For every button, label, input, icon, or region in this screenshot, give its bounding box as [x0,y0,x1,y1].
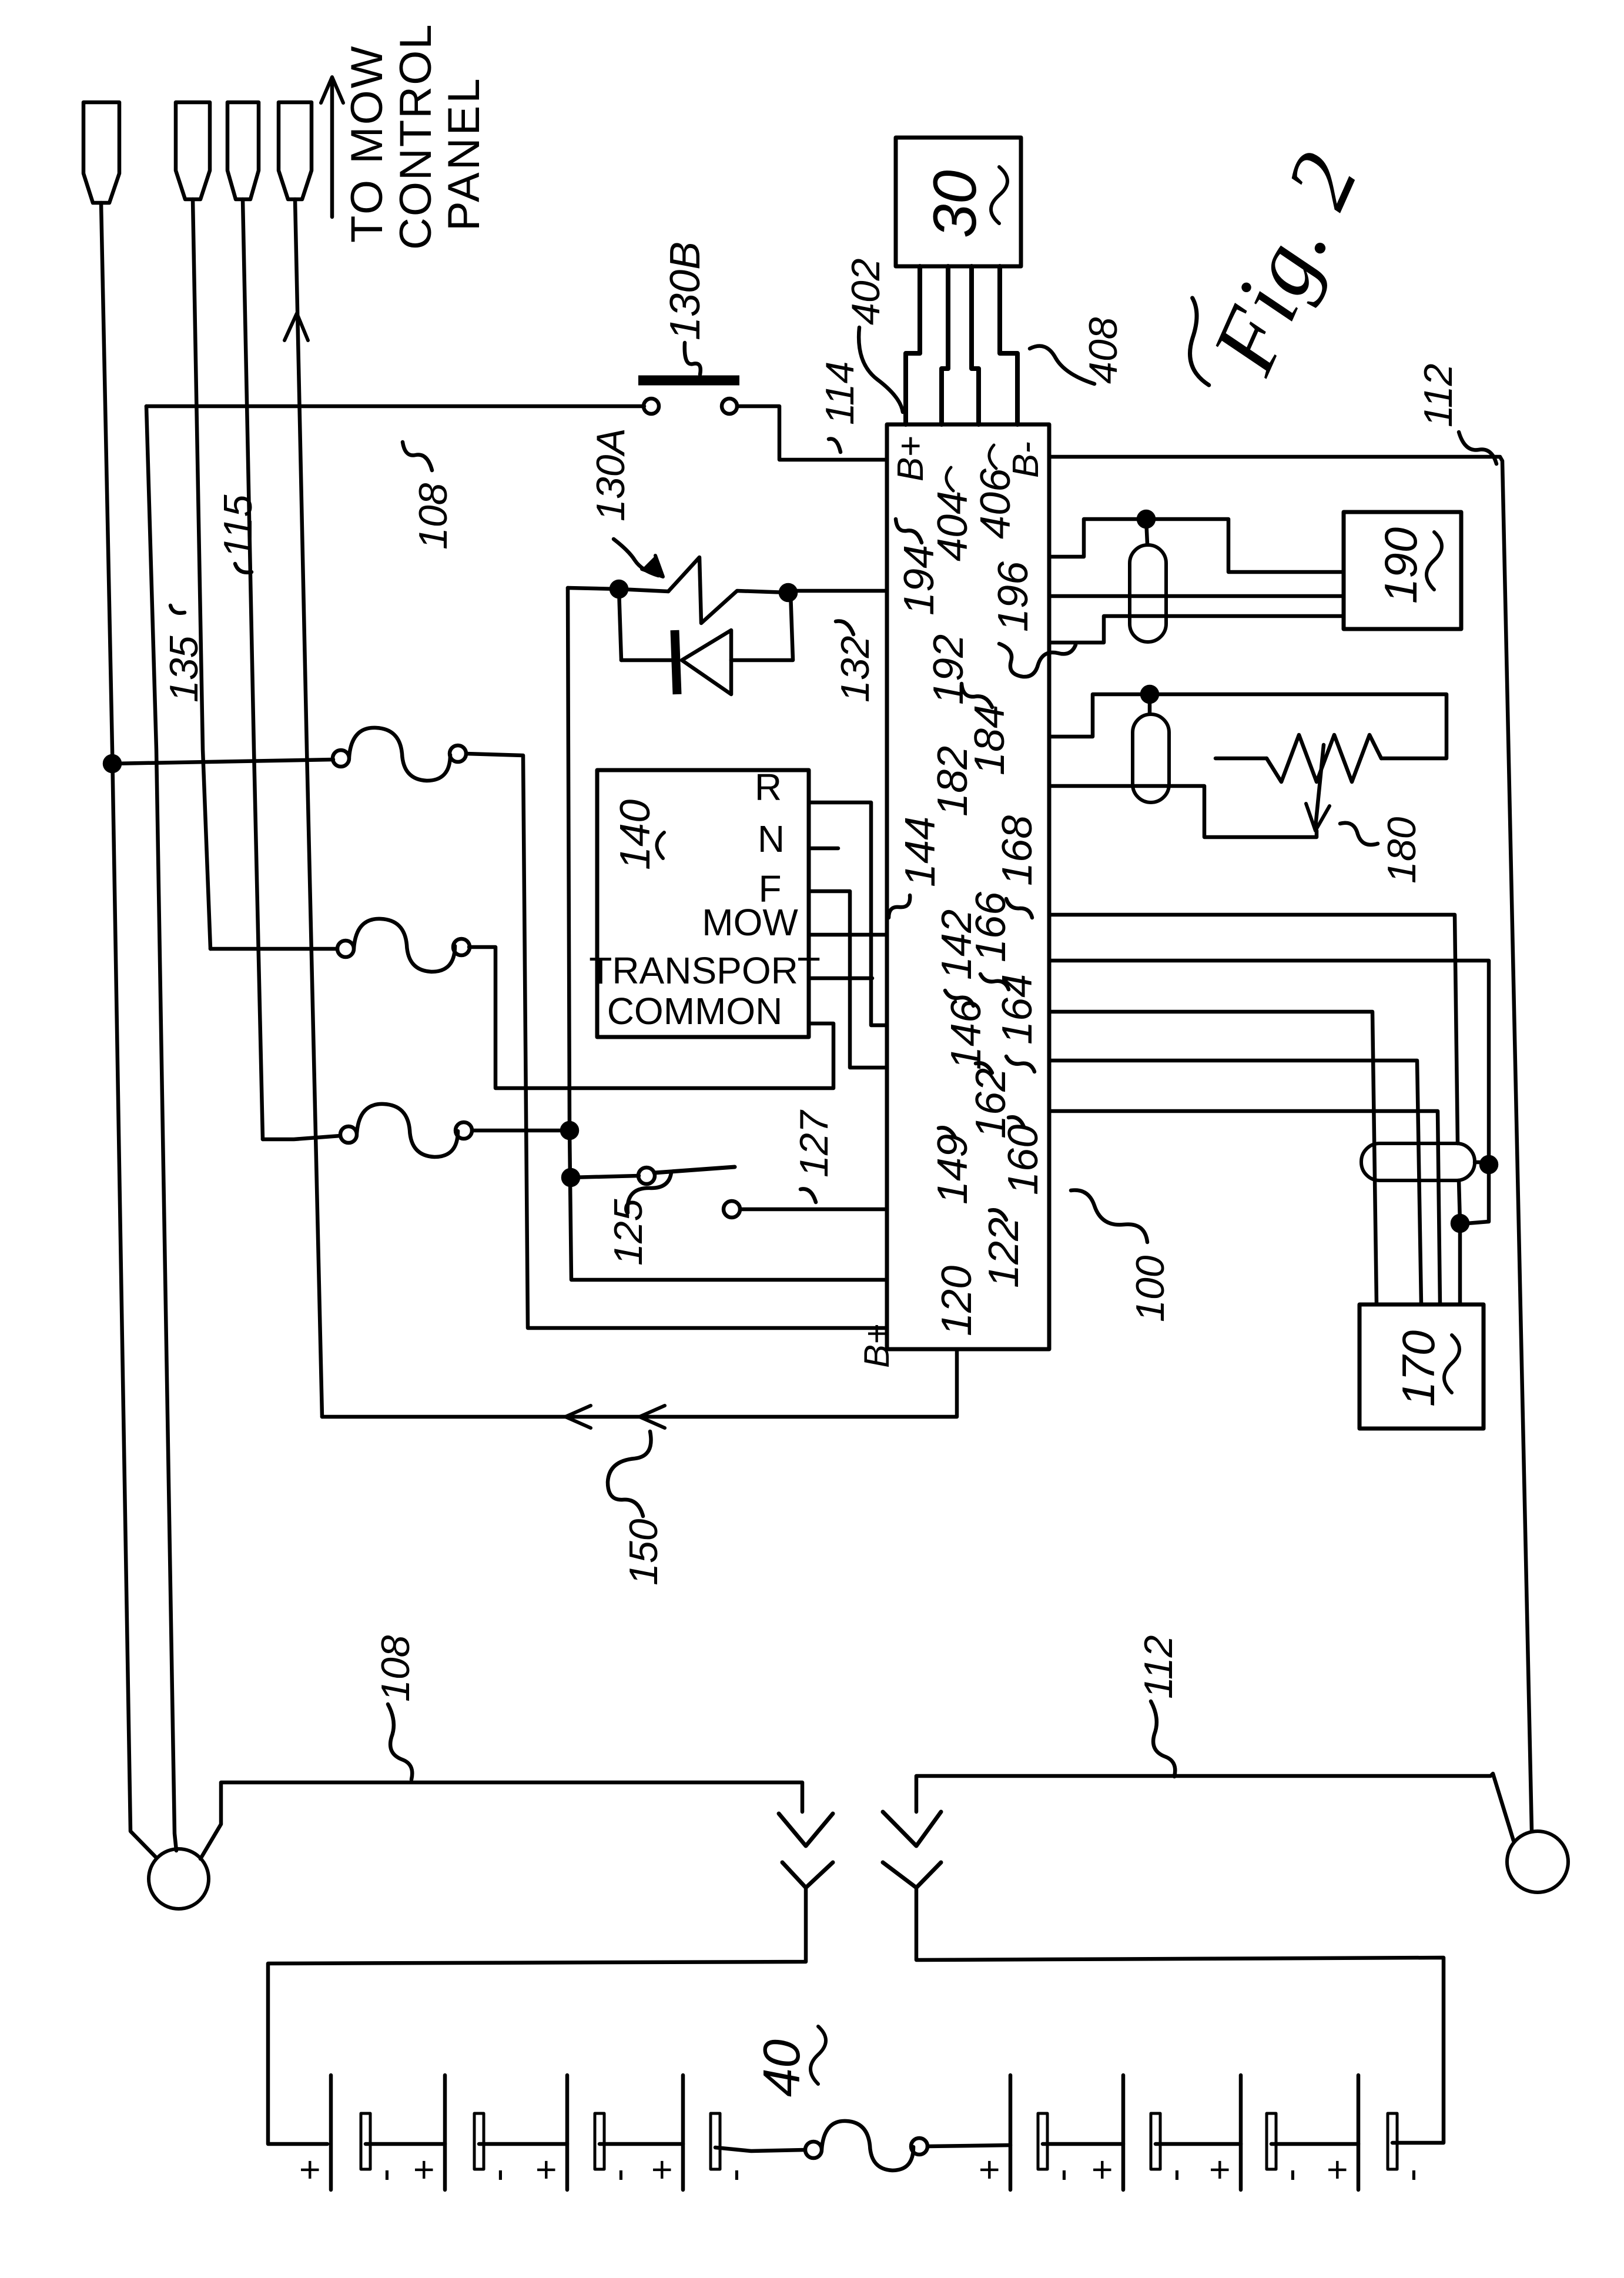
wire coupler to battery top [268,1888,806,2144]
diode branch wire upper [621,658,676,663]
svg-text:112: 112 [1416,364,1461,427]
diode branch stub top [619,589,621,660]
fuse F3 contact a [340,1126,357,1143]
direction arrow beside TO MOW CONTROL PANEL text [321,77,343,217]
coupler female contact right harness [883,1862,941,1888]
wire 150: B+ feed from pin P4 corner to bar bottom left [322,1351,957,1417]
svg-text:-: - [1389,2169,1432,2182]
svg-text:-: - [596,2169,639,2182]
label 125 with leader [606,1173,671,1266]
terminal label 122 with leader [980,1210,1027,1288]
terminal label 406 with tilde [972,445,1019,539]
fuse F2 contact b [453,939,470,955]
label 30 with tilde inside motor box [921,167,1007,238]
battery cell 5-6 link [1043,2142,1123,2146]
svg-text:TO MOW: TO MOW [342,45,392,243]
svg-text:-: - [1152,2169,1196,2182]
battery fuse contact a [805,2142,822,2158]
battery cell 6-7 link [1156,2142,1241,2146]
fuse F2 feed from pin P2 wire [210,947,337,951]
svg-text:+: + [526,2159,567,2180]
terminal label 142 with leader [933,909,980,1006]
battery cell 8 plates [1358,2075,1397,2190]
svg-text:160: 160 [1000,1125,1047,1195]
svg-text:+: + [1200,2159,1240,2180]
pushbutton switch 130B contact b [722,399,737,414]
terminal label 149 with leader [929,1128,976,1205]
svg-text:B+: B+ [890,436,931,481]
terminal label 184 with leader [962,684,1013,775]
battery cell 3-4 link [600,2142,683,2146]
wire 164 from bar to sensor box 170 [1049,915,1458,1143]
harness ring terminal right (112 side) [1507,1831,1568,1892]
stub dot to sensor pill S2 [1148,694,1152,713]
sensor box 170 [1360,1304,1484,1429]
svg-text:PANEL: PANEL [439,76,489,231]
fuse F1 element s-curve [349,728,450,781]
wire switch 127 contact to bar terminal 122 [740,1207,885,1212]
fuse F1 contact b [450,745,466,762]
junction dot at flasher top [611,581,627,597]
svg-text:-: - [712,2169,755,2182]
motor controller terminal bar 100 [887,424,1049,1349]
svg-text:R: R [755,766,782,808]
terminal label 164 with leader [994,974,1041,1072]
battery cell 1-2 link [366,2142,445,2146]
junction dot group 180 [1142,687,1157,702]
battery cell 2-3 link [479,2142,567,2146]
wire 196 from bar through pill to box 190 [1049,594,1344,598]
battery cell 5 plates [1010,2075,1047,2190]
svg-text:406: 406 [972,468,1019,539]
terminal label 162 with leader [967,1063,1014,1139]
svg-text:B+: B+ [857,1324,896,1368]
svg-text:164: 164 [994,974,1041,1045]
svg-text:150: 150 [621,1518,666,1585]
connector pin P1 (to mow control panel) [83,102,119,203]
label 140 with tilde inside box [612,800,664,870]
label 114 with tilde leader [818,362,862,452]
motor lead 406a [972,266,979,424]
junction dot group 190 [1139,511,1154,527]
switch 127 contact b [724,1201,740,1217]
svg-text:132: 132 [833,636,878,703]
label 100 with leader [1071,1190,1173,1322]
svg-text:168: 168 [994,815,1041,886]
battery cell 6 polarity labels [1082,2159,1196,2182]
connector pin P2 [176,102,210,199]
wire coupler to battery bottom [916,1888,1444,2143]
battery cell 8 polarity labels [1317,2159,1432,2182]
stub dot to sensor pill S1 [1146,519,1147,544]
battery cell 5 polarity labels [969,2159,1083,2182]
svg-text:+: + [404,2159,444,2180]
wire F pin to bar [809,891,885,1068]
wire from pin P4 to node at 150 wire [295,199,322,1417]
svg-text:+: + [642,2159,682,2180]
wire COMMON pin to fuse F2 output [469,947,833,1088]
wire 162 from bar joining via pill stub [1049,961,1489,1223]
rheostat 180 zigzag element [1267,735,1381,782]
svg-text:402: 402 [843,259,888,325]
svg-text:122: 122 [980,1217,1027,1288]
label 130B with leader [662,242,709,374]
wire rail junction to switch 125 contact [571,1176,639,1178]
battery cell 2 plates [445,2075,484,2190]
coupler male arrow right harness [883,1812,941,1846]
svg-text:130B: 130B [662,242,709,340]
fuse F1 feed wire [112,760,333,764]
label 408 with curved leader [1030,317,1126,384]
svg-text:40: 40 [752,2039,811,2097]
terminal label 168 with leader [994,815,1041,918]
junction dot at flasher bottom [781,585,796,600]
battery cell 4 polarity labels [642,2159,755,2182]
terminal label 196 with leader [990,561,1076,677]
wire 108 harness run from circle to coupler [200,1782,802,1859]
svg-text:108: 108 [373,1635,418,1702]
svg-text:166: 166 [967,891,1014,962]
label 170 with tilde [1392,1330,1459,1407]
svg-text:146: 146 [943,999,990,1070]
label 180 with leader [1340,817,1424,884]
battery fuse contact b [911,2138,927,2155]
svg-text:B-: B- [1006,441,1046,478]
junction dot on wire into 170 [1452,1216,1468,1231]
sensor pill S3 around harness wires [1361,1143,1475,1180]
lamp box 190 [1344,512,1461,629]
switch 125 blade arm [654,1167,735,1173]
svg-text:404: 404 [929,491,976,561]
fuse F1 feed junction dot on P1 wire [105,756,120,771]
connector pin P3 [227,102,259,199]
arrowhead 2 on wire 150 pointing up [639,1406,665,1428]
label 190 with tilde [1375,527,1442,604]
diode cathode bar [675,630,677,694]
harness ring terminal left (108 side) [149,1849,209,1909]
diode triangle [682,630,731,694]
wire 194 from bar to sensor group 190 [1049,519,1344,572]
fuse F3 element s-curve [357,1104,458,1157]
svg-text:408: 408 [1081,317,1126,384]
svg-text:108: 108 [411,483,456,550]
label 112 (harness) with tilde leader [1136,1635,1181,1777]
svg-text:190: 190 [1375,527,1427,604]
svg-text:-: - [1268,2169,1311,2182]
label 150 with tilde leader [608,1431,666,1585]
wire from pin P2 to fuse F2 [193,199,210,949]
terminal label 160 with leader [1000,1117,1047,1195]
svg-text:-: - [362,2169,406,2182]
label 402 with curved leader to motor lead [843,259,903,412]
terminal label 144 with leader [889,817,944,918]
junction dot switch feed on rail [563,1170,578,1185]
wire battery to fuse top [715,2147,805,2151]
stub N pin [809,847,838,851]
return rail 132 from flasher corner to terminal 120 side [568,588,885,1280]
label 132 with tilde leader [833,621,878,703]
flasher 130A zigzag element [668,557,788,623]
fuse F3 output wire to return rail junction [472,1129,570,1133]
text TO MOW CONTROL PANEL [342,23,489,250]
wire from pill S3 region into box 170 [1459,1180,1460,1304]
motor lead 404b [942,266,948,424]
svg-text:196: 196 [990,561,1037,632]
connector pin P4 [279,102,312,199]
sensor pill S2 [1133,714,1169,802]
svg-text:182: 182 [929,746,976,817]
wire 160 from bar to box 170 [1049,1111,1440,1304]
wire 182 from bar to wiper [1049,786,1317,837]
motor lead 406b [1000,266,1017,424]
fuse F3 contact b [456,1122,472,1139]
wire TRANSPORT pin to bar [809,976,872,981]
svg-text:170: 170 [1392,1330,1444,1407]
coupler male arrow left harness [779,1814,833,1846]
motor 30 box [896,138,1021,266]
switch 125 contact a [638,1168,655,1184]
wire MOW pin to bar [809,933,885,937]
svg-text:120: 120 [933,1266,980,1336]
svg-text:149: 149 [929,1134,976,1205]
svg-text:-: - [476,2169,519,2182]
svg-text:115: 115 [216,494,260,558]
svg-text:-: - [1039,2169,1083,2182]
svg-text:130A: 130A [588,428,633,521]
arrowhead 1 on wire 150 pointing up [565,1406,591,1428]
fuse F1 output wire to bar terminal 120 [466,754,885,1328]
svg-text:COMMON: COMMON [607,990,783,1032]
terminal label 404 with tilde [929,467,976,561]
wire 168 from bar to box 170 [1049,1061,1421,1304]
svg-text:+: + [1317,2159,1358,2180]
battery cell 1 plates [331,2075,370,2190]
fuse F3 feed from pin P3 wire [263,1136,340,1139]
wire from pin P3 to fuse F3 [243,199,263,1139]
wire 166 from bar to box 170 [1049,1012,1377,1304]
rheostat 180 open lead [1216,757,1267,761]
svg-text:N: N [758,818,785,860]
wire 112 harness run coupler to circle [916,1774,1513,1841]
wire from pin P1 down-left to harness circle [101,203,156,1858]
battery cell 3 plates [567,2075,604,2190]
fuse F1 contact a [333,750,349,767]
junction dot fuse F3 output on rail [562,1123,577,1138]
svg-text:140: 140 [612,800,659,870]
battery cell 3 polarity labels [526,2159,639,2182]
pushbutton switch 130B contact a [644,399,659,414]
battery cell 7-8 link [1271,2142,1358,2146]
svg-text:+: + [290,2159,330,2180]
terminal label 166 with leader [967,891,1014,989]
svg-text:30: 30 [921,170,989,238]
stub pill S3 to wire 162 [1475,1160,1489,1165]
wire fuse bottom to battery right group [927,2145,1010,2146]
coupler female contact left harness [782,1862,833,1888]
battery cell 7 plates [1241,2075,1276,2190]
arrowhead on pin P4 wire pointing right [284,313,308,340]
label 108 (top) with tilde leader [403,442,456,550]
battery cell 4 plates [683,2075,720,2190]
label 112 (top right) with tilde leader [1416,364,1496,464]
wire 112: B- loop from bar to right harness circle [1049,457,1532,1831]
svg-text:180: 180 [1379,817,1424,884]
wire 108: pushbutton to harness circle [146,404,644,409]
wire 108 long run to left circle [146,406,176,1851]
svg-text:TRANSPORT: TRANSPORT [589,949,821,992]
svg-text:135: 135 [162,635,206,703]
battery cell 7 polarity labels [1200,2159,1311,2182]
label 40 with tilde [752,2026,826,2097]
label 127 with tilde leader [792,1109,836,1202]
wire 184 from bar to potentiometer rail [1049,694,1446,758]
pushbutton 130B actuator bar [638,376,739,386]
fuse F2 contact a [337,941,354,957]
label Fig. 2 script [1163,129,1378,414]
label 108 (harness) with tilde leader [373,1635,418,1779]
svg-text:127: 127 [792,1109,836,1178]
label 135 with leader [162,606,206,703]
battery cell 1 polarity labels [290,2159,406,2182]
diode branch wire lower [731,593,793,660]
flasher 130A wire from bar to return rail [788,589,887,593]
controller logic box 140 [597,770,809,1037]
battery cell 2 polarity labels [404,2159,519,2182]
rheostat 180 wiper diagonal with arrowhead [1306,745,1330,831]
svg-text:+: + [1082,2159,1123,2180]
wire R pin to bar [809,802,885,1025]
battery cell 6 plates [1123,2075,1160,2190]
svg-text:112: 112 [1136,1635,1181,1699]
wire top of flasher to corner [568,588,668,591]
label 115 with leader [216,494,260,572]
terminal label 194 with leader [896,519,943,616]
junction dot at pill S3 stub [1481,1157,1496,1172]
wire from 130B contact b to bar terminal B+ [737,406,885,460]
sensor pill S1 [1130,545,1166,642]
label 130A with arrow leader [588,428,663,577]
svg-text:+: + [969,2159,1010,2180]
fuse F2 element s-curve [354,919,455,972]
svg-text:100: 100 [1128,1255,1173,1322]
motor lead 404a [906,266,920,424]
svg-text:114: 114 [818,362,862,425]
svg-text:MOW: MOW [702,901,798,944]
battery fuse element s-curve [822,2121,913,2170]
wire third from bar to box 190 [1049,616,1344,643]
svg-text:CONTROL: CONTROL [391,23,441,250]
svg-text:144: 144 [897,817,944,887]
